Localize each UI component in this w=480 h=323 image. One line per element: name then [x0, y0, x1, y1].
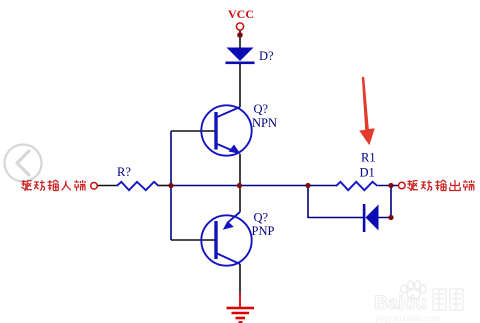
svg-text:jingyan.baidu.com: jingyan.baidu.com [375, 314, 441, 323]
svg-text:Baidu: Baidu [374, 293, 427, 314]
svg-text:D?: D? [259, 49, 274, 63]
svg-text:D1: D1 [360, 166, 375, 180]
svg-text:Q?: Q? [254, 211, 269, 225]
svg-text:R?: R? [117, 165, 131, 179]
svg-text:Q?: Q? [254, 102, 269, 116]
svg-text:NPN: NPN [252, 116, 277, 130]
svg-text:PNP: PNP [252, 224, 275, 238]
svg-text:R1: R1 [361, 151, 376, 165]
svg-text:VCC: VCC [228, 7, 254, 21]
